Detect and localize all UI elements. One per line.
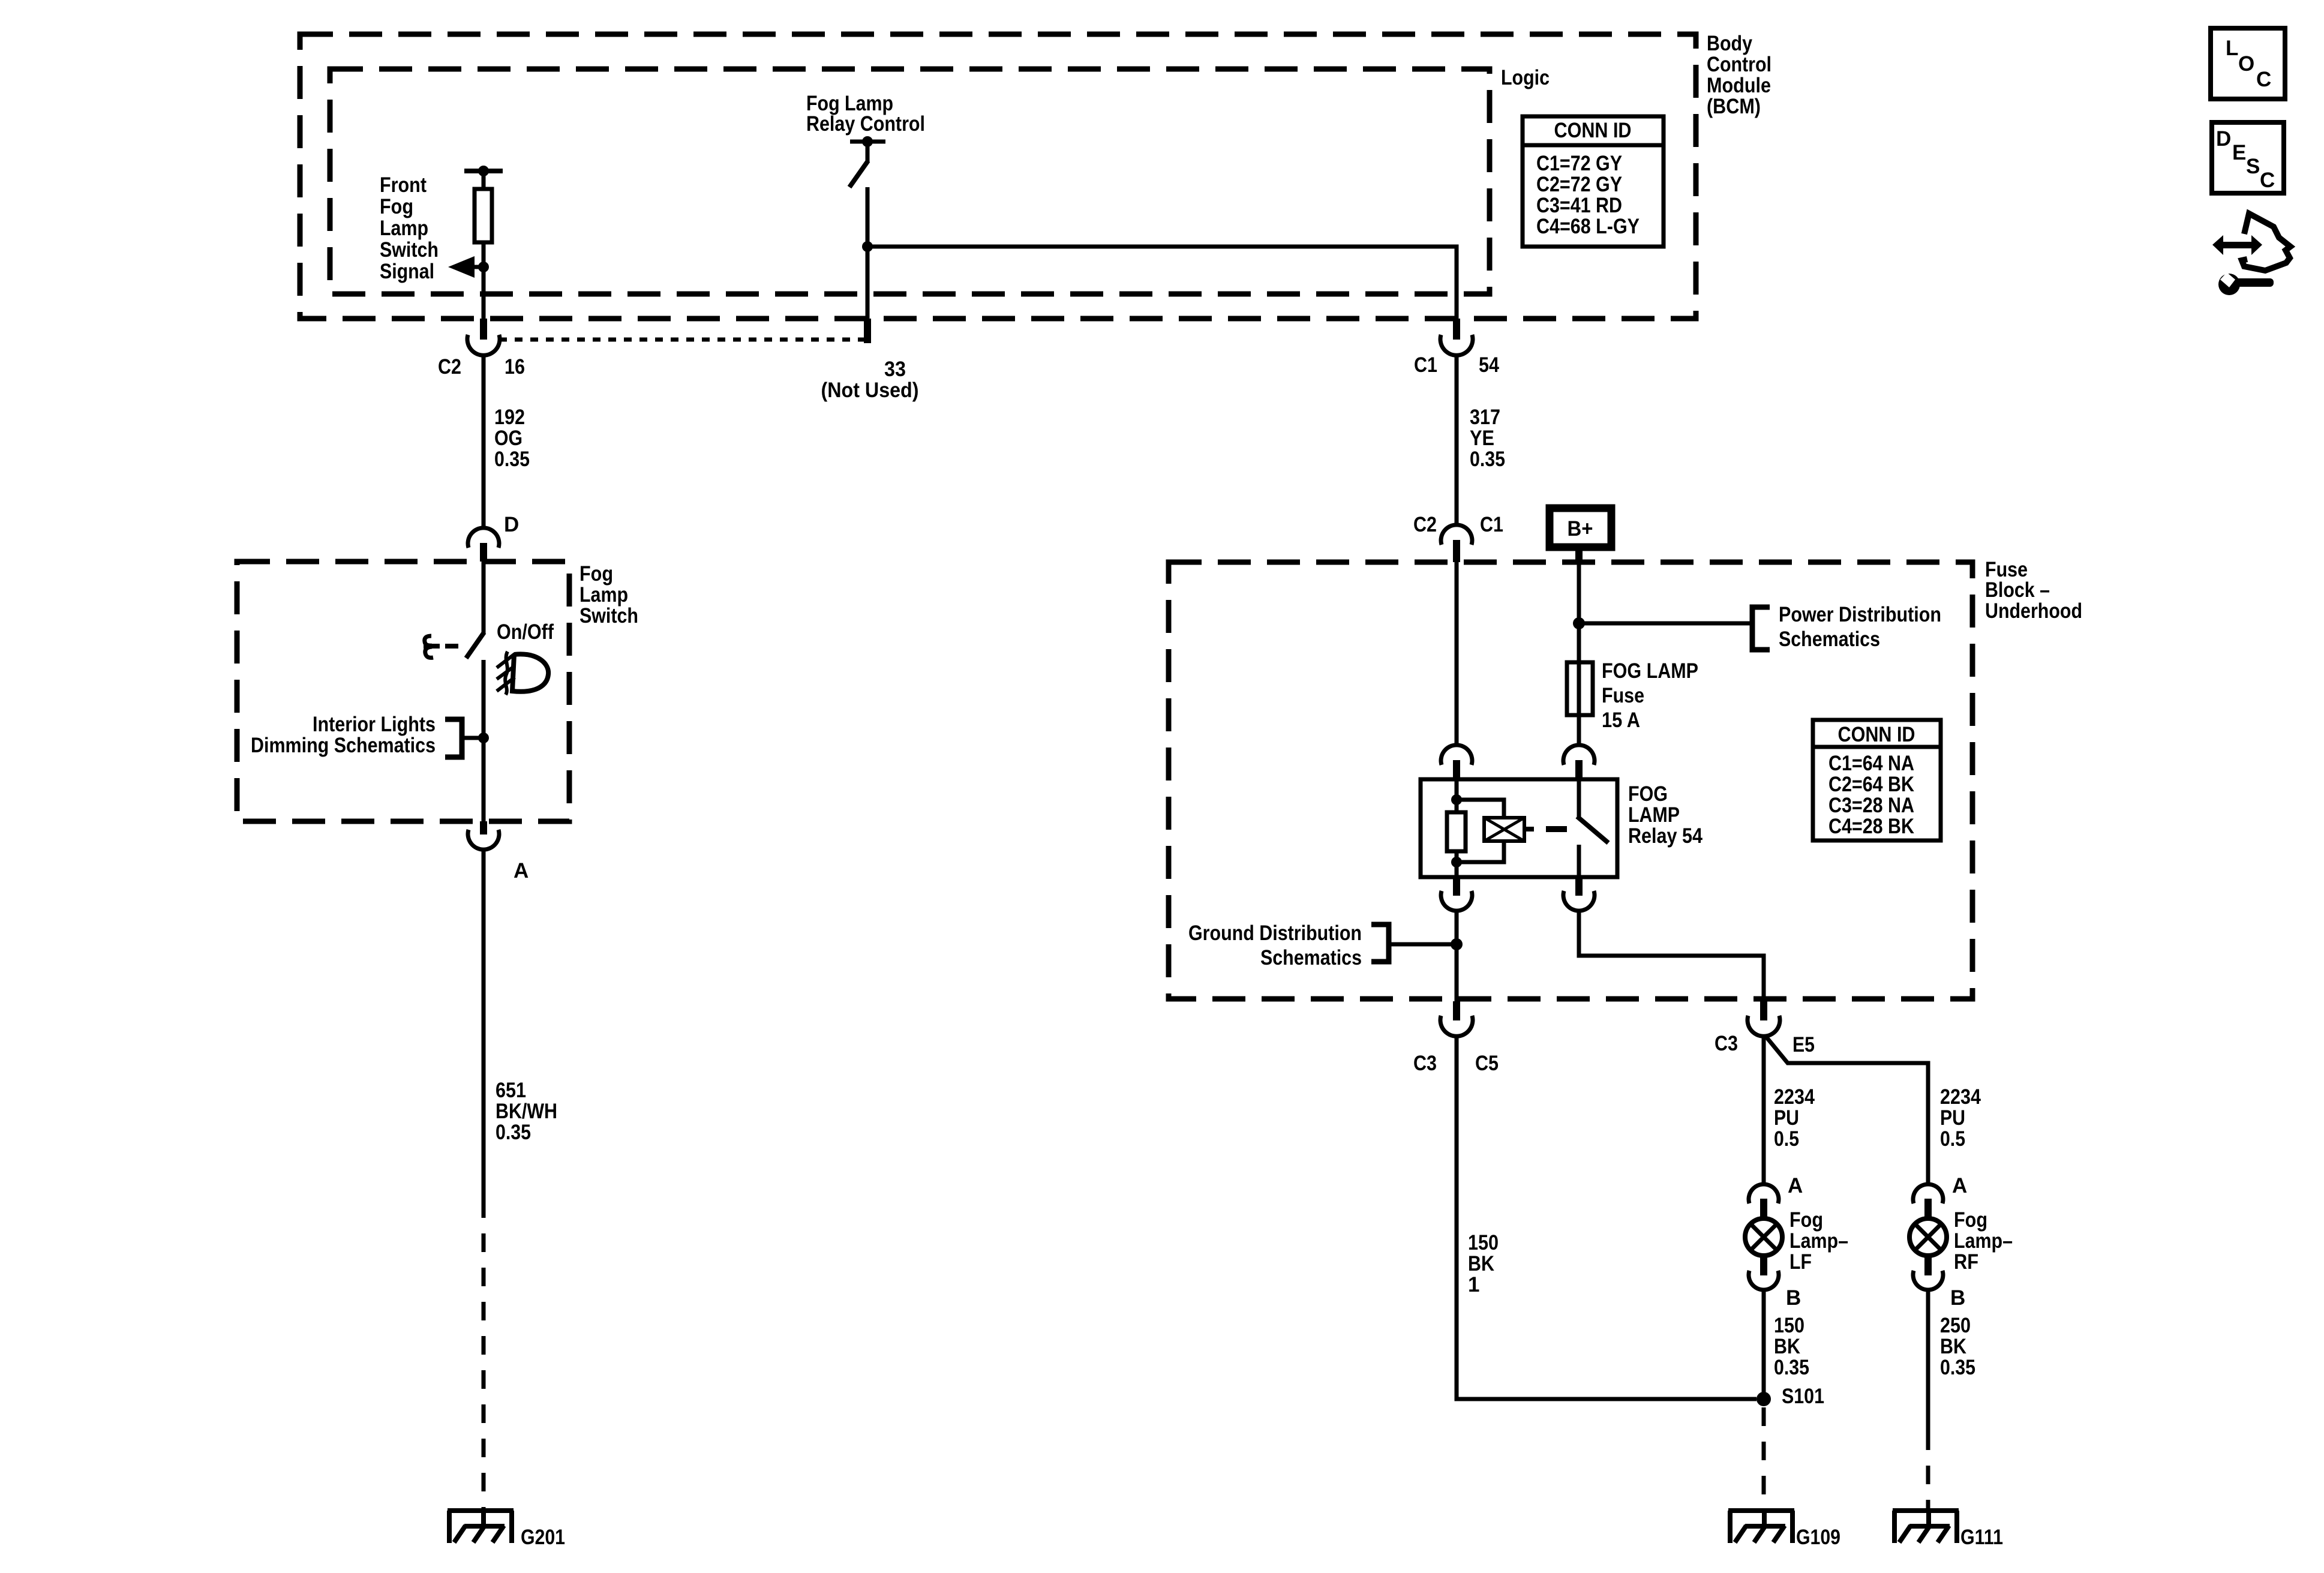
svg-text:C2=72 GY: C2=72 GY (1536, 173, 1622, 196)
svg-text:S101: S101 (1782, 1385, 1824, 1408)
svg-text:54: 54 (1479, 353, 1499, 377)
svg-text:C3: C3 (1413, 1052, 1437, 1075)
svg-text:(Not Used): (Not Used) (821, 379, 919, 402)
wire: 2234 PU 0.5 left (1762, 1035, 1766, 1185)
wire: dashed to G111 (1926, 1431, 1930, 1513)
label: Logic (1501, 66, 1550, 89)
svg-text:Switch: Switch (580, 604, 638, 628)
svg-text:(BCM): (BCM) (1707, 95, 1761, 118)
svg-text:G111: G111 (1960, 1526, 2003, 1549)
logic box (330, 69, 1490, 294)
svg-text:Power Distribution: Power Distribution (1779, 603, 1941, 626)
label: 2234 PU 0.5 (RF) (1940, 1085, 1981, 1151)
svg-text:0.35: 0.35 (494, 448, 530, 471)
svg-text:Schematics: Schematics (1260, 946, 1362, 969)
label: Fog Lamp Relay Control (806, 92, 925, 136)
svg-text:Dimming Schematics: Dimming Schematics (251, 734, 436, 757)
svg-text:C1: C1 (1414, 353, 1437, 377)
signal arrow (448, 256, 489, 278)
svg-text:150: 150 (1468, 1231, 1499, 1254)
connector C3/E5 (1747, 1001, 1780, 1036)
label: Power Distribution Schematics (1779, 603, 1941, 651)
connector ID table (BCM) CONN ID (1523, 116, 1664, 247)
connector relay pin bottom-left (1441, 877, 1472, 911)
ground G109 (1728, 1509, 1794, 1543)
connector A (fog lamp RF) (1913, 1184, 1943, 1219)
svg-text:33: 33 (884, 358, 906, 381)
svg-text:CONN ID: CONN ID (1554, 119, 1632, 142)
svg-text:On/Off: On/Off (497, 620, 554, 644)
svg-text:Relay 54: Relay 54 (1628, 824, 1703, 848)
wire: 2234 PU 0.5 right branch (1765, 1036, 1928, 1185)
svg-text:Body: Body (1707, 32, 1752, 55)
wire: B+ to fuse (1577, 551, 1581, 746)
svg-text:0.35: 0.35 (1470, 448, 1505, 471)
label: C1 / 54 (1414, 353, 1499, 377)
wire: 150 BK 1 to S101 (1457, 1035, 1756, 1399)
svg-text:C: C (2256, 68, 2271, 91)
svg-text:Control: Control (1707, 53, 1771, 76)
svg-text:Fog: Fog (1789, 1208, 1823, 1232)
svg-text:FOG: FOG (1628, 782, 1668, 806)
svg-text:LF: LF (1789, 1250, 1812, 1274)
connector ID table (fuse block) CONN ID (1813, 720, 1941, 840)
junction: dimming tap (478, 733, 489, 743)
wire: dashed to G201 (482, 1199, 486, 1512)
svg-text:S: S (2246, 155, 2260, 178)
svg-text:G201: G201 (521, 1526, 565, 1549)
label: Fog Lamp- RF (1954, 1208, 2013, 1274)
svg-text:C1=72 GY: C1=72 GY (1536, 152, 1622, 175)
label: A (LF) (1788, 1174, 1803, 1197)
icon: fog lamp (497, 652, 548, 695)
svg-text:250: 250 (1940, 1314, 1971, 1337)
wire: C2/C1 to relay coil (1455, 562, 1459, 746)
svg-text:C4=68 L-GY: C4=68 L-GY (1536, 215, 1640, 238)
node: resistor top bar (464, 166, 503, 176)
svg-text:651: 651 (496, 1079, 526, 1102)
svg-text:E: E (2232, 141, 2246, 164)
label: Fog Lamp Switch (580, 562, 638, 628)
lamp: Fog Lamp RF (1909, 1218, 1947, 1256)
resistor: front fog lamp switch signal (475, 171, 492, 319)
svg-text:L: L (2226, 37, 2238, 60)
svg-text:192: 192 (494, 406, 525, 429)
label: Fuse Block - Underhood (1985, 558, 2082, 623)
svg-text:C5: C5 (1475, 1052, 1499, 1075)
svg-text:BK: BK (1940, 1335, 1966, 1358)
svg-text:PU: PU (1774, 1106, 1799, 1130)
svg-text:PU: PU (1940, 1106, 1965, 1130)
pin stub 33 (864, 319, 871, 343)
svg-text:A: A (1952, 1174, 1967, 1197)
svg-text:Ground Distribution: Ground Distribution (1188, 921, 1362, 945)
wire: to power distribution (1579, 622, 1752, 626)
icon: service arrow and wrench (2212, 214, 2290, 295)
svg-text:Module: Module (1707, 74, 1771, 97)
svg-text:Fuse: Fuse (1602, 684, 1644, 707)
svg-text:FOG LAMP: FOG LAMP (1602, 659, 1698, 683)
svg-text:G109: G109 (1796, 1526, 1840, 1549)
label: Front Fog Lamp Switch Signal (380, 173, 439, 283)
svg-text:C: C (2260, 169, 2275, 192)
svg-text:LAMP: LAMP (1628, 803, 1680, 827)
svg-text:Lamp–: Lamp– (1954, 1229, 2013, 1253)
svg-text:B+: B+ (1568, 517, 1593, 541)
svg-text:Logic: Logic (1501, 66, 1550, 89)
bracket: ground distribution (1371, 924, 1457, 962)
wire: dashed to G109 (1762, 1407, 1766, 1513)
svg-text:D: D (504, 513, 519, 536)
label: Ground Distribution Schematics (1188, 921, 1362, 969)
label: 317 YE 0.35 (1470, 406, 1505, 471)
label: D (504, 513, 519, 536)
ground G111 (1893, 1509, 1959, 1543)
svg-text:C4=28 BK: C4=28 BK (1828, 815, 1914, 838)
svg-text:Interior Lights: Interior Lights (313, 713, 436, 736)
wire: 192 OG 0.35 (482, 355, 486, 529)
label: FOG LAMP Relay 54 (1628, 782, 1703, 848)
connector A (fog lamp LF) (1749, 1184, 1779, 1219)
connector B (fog lamp LF) (1749, 1255, 1779, 1290)
svg-text:RF: RF (1954, 1250, 1978, 1274)
label: 33 (Not Used) (821, 358, 919, 402)
label: 2234 PU 0.5 (LF) (1774, 1085, 1815, 1151)
svg-text:0.35: 0.35 (1940, 1356, 1975, 1379)
label: Fog Lamp- LF (1789, 1208, 1848, 1274)
label: A (514, 859, 529, 882)
wire: 317 YE 0.35 (1455, 355, 1459, 526)
label: FOG LAMP Fuse 15 A (1602, 659, 1698, 732)
wire: 651 BK/WH 0.35 solid (482, 849, 486, 1199)
svg-text:C1: C1 (1480, 513, 1503, 536)
svg-text:Schematics: Schematics (1779, 628, 1880, 651)
label: 150 BK 1 (1468, 1231, 1499, 1296)
connector A (fog lamp switch) (468, 821, 499, 849)
svg-text:2234: 2234 (1940, 1085, 1981, 1109)
svg-text:C3: C3 (1715, 1032, 1738, 1055)
wire: relay output right to E5 (1579, 910, 1764, 1001)
pin stub 54 (1453, 319, 1460, 340)
legend box: DESC (2212, 122, 2284, 193)
svg-text:0.35: 0.35 (1774, 1356, 1809, 1379)
svg-text:0.5: 0.5 (1774, 1127, 1799, 1151)
connector C1 pin 54 (1440, 335, 1473, 355)
svg-text:CONN ID: CONN ID (1838, 723, 1915, 746)
svg-text:C2=64 BK: C2=64 BK (1828, 773, 1914, 796)
svg-text:O: O (2238, 52, 2254, 76)
wire: not used dotted (499, 338, 864, 342)
svg-text:Fog: Fog (1954, 1208, 1987, 1232)
module box: Body Control Module (BCM) (300, 34, 1696, 319)
svg-text:D: D (2216, 127, 2231, 151)
svg-text:150: 150 (1774, 1314, 1804, 1337)
label: Interior Lights Dimming Schematics (251, 713, 436, 757)
connector C2/C1 (fuse block input) (1441, 525, 1472, 562)
svg-text:C3=41 RD: C3=41 RD (1536, 194, 1622, 217)
svg-text:15 A: 15 A (1602, 709, 1640, 732)
label: G109 (1796, 1526, 1840, 1549)
svg-text:A: A (1788, 1174, 1803, 1197)
svg-text:C1=64 NA: C1=64 NA (1828, 752, 1914, 775)
relay: FOG LAMP Relay 54 (1421, 779, 1617, 877)
svg-text:Lamp: Lamp (380, 217, 428, 240)
label: C2 / 16 (438, 355, 525, 379)
svg-text:Fog: Fog (380, 195, 413, 218)
switch actuator contact (424, 636, 458, 658)
svg-text:B: B (1950, 1286, 1965, 1310)
svg-text:C2: C2 (438, 355, 461, 379)
label: On/Off (497, 620, 554, 644)
svg-text:OG: OG (494, 427, 523, 450)
lamp: Fog Lamp LF (1745, 1218, 1782, 1256)
svg-text:0.35: 0.35 (496, 1121, 531, 1144)
svg-text:E5: E5 (1792, 1033, 1815, 1056)
svg-text:16: 16 (505, 355, 525, 379)
legend box: LOC (2211, 28, 2285, 99)
svg-text:317: 317 (1470, 406, 1500, 429)
svg-text:0.5: 0.5 (1940, 1127, 1965, 1151)
wire: 150 BK 0.35 (1762, 1289, 1766, 1399)
label: Body Control Module (BCM) (1707, 32, 1771, 118)
label: C3 / E5 (1715, 1032, 1815, 1056)
svg-text:Block –: Block – (1985, 578, 2050, 602)
label: 250 BK 0.35 (1940, 1314, 1975, 1379)
label: G201 (521, 1526, 565, 1549)
svg-text:Underhood: Underhood (1985, 599, 2082, 623)
svg-text:BK/WH: BK/WH (496, 1100, 557, 1123)
label: A (RF) (1952, 1174, 1967, 1197)
svg-text:Fog: Fog (580, 562, 613, 586)
bracket: power distribution (1752, 607, 1770, 650)
wire: relay control to pin 54 (867, 247, 1457, 319)
connector C3/C5 (1440, 1001, 1473, 1036)
connector C2 pin 16 (467, 335, 500, 355)
svg-text:YE: YE (1470, 427, 1494, 450)
fuse: FOG LAMP Fuse 15 A (1567, 662, 1593, 715)
svg-text:C2: C2 (1413, 513, 1437, 536)
splice S101 (1756, 1392, 1771, 1406)
connector relay pin bottom-right (1563, 877, 1595, 911)
ground G201 (448, 1509, 514, 1543)
svg-text:Front: Front (380, 173, 427, 197)
svg-text:Lamp: Lamp (580, 583, 628, 607)
connector relay pin top-left (1441, 745, 1472, 780)
svg-text:BK: BK (1774, 1335, 1800, 1358)
wire: 250 BK 0.35 (1926, 1289, 1930, 1431)
svg-text:A: A (514, 859, 529, 882)
svg-text:C3=28 NA: C3=28 NA (1828, 794, 1914, 817)
label: B (LF) (1786, 1286, 1801, 1310)
bracket: interior lights dimming (445, 719, 484, 757)
wire: relay output left (1455, 910, 1459, 1001)
svg-text:B: B (1786, 1286, 1801, 1310)
switch: fog lamp relay control (849, 136, 885, 319)
svg-text:Signal: Signal (380, 260, 434, 283)
connector B (fog lamp RF) (1913, 1255, 1943, 1290)
connector relay pin top-right (1563, 745, 1595, 780)
label: G111 (1960, 1526, 2003, 1549)
label: C3 / C5 (1413, 1052, 1499, 1075)
label: 150 BK 0.35 (1774, 1314, 1809, 1379)
junction: power distribution tap (1573, 617, 1585, 629)
label: 651 BK/WH 0.35 (496, 1079, 557, 1144)
junction: relay control node (862, 241, 873, 252)
svg-text:Switch: Switch (380, 238, 439, 262)
pin stub 16 (480, 319, 487, 340)
power terminal B+ (1550, 508, 1611, 547)
component box: Fog Lamp Switch (237, 562, 569, 821)
svg-text:BK: BK (1468, 1252, 1494, 1275)
connector D (468, 528, 499, 562)
svg-text:Relay Control: Relay Control (806, 112, 925, 136)
svg-text:2234: 2234 (1774, 1085, 1815, 1109)
label: C2 / C1 (1413, 513, 1503, 536)
switch: On/Off (466, 562, 484, 821)
label: S101 (1782, 1385, 1824, 1408)
svg-text:1: 1 (1468, 1273, 1479, 1296)
svg-text:Lamp–: Lamp– (1789, 1229, 1848, 1253)
label: 192 OG 0.35 (494, 406, 530, 471)
label: B (RF) (1950, 1286, 1965, 1310)
junction: ground distribution tap (1451, 938, 1463, 950)
module box: Fuse Block - Underhood (1169, 562, 1972, 999)
